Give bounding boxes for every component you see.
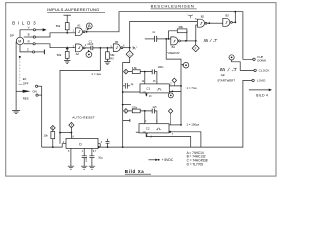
svg-text:1 = 7ms: 1 = 7ms <box>186 86 197 90</box>
svg-text:R: R <box>28 40 30 44</box>
svg-text:V: V <box>28 26 30 30</box>
mech link dashed <box>19 56 21 58</box>
svg-text:B1: B1 <box>115 40 119 44</box>
balloon dot mid <box>183 62 189 68</box>
pin CD U1 <box>143 91 147 93</box>
svg-text:C: C <box>27 48 29 52</box>
contact RES <box>36 94 38 96</box>
IC D TL7705 <box>66 138 98 148</box>
node 9 <box>208 22 210 24</box>
monostable U2 <box>139 124 169 133</box>
wire to B2 input <box>196 25 198 41</box>
resistor R5 68k <box>132 70 140 74</box>
svg-text:RES: RES <box>23 97 29 101</box>
title BESCHLEUNIGEN <box>151 4 195 9</box>
svg-text:DOWN: DOWN <box>257 59 266 63</box>
gate B1 <box>113 44 120 52</box>
wire R2 <box>66 48 68 61</box>
wire OFF <box>38 85 42 87</box>
wire pole to ground <box>15 91 17 110</box>
arrow V end <box>43 28 47 31</box>
svg-text:BESCHLEUNIGEN: BESCHLEUNIGEN <box>151 4 195 9</box>
right top pin U2 <box>169 124 181 126</box>
gate B1 osc <box>171 37 178 45</box>
node RC1 <box>144 71 146 73</box>
arrow BILD4 <box>249 89 269 91</box>
power diamond U2 <box>168 109 172 114</box>
wire feedback left <box>169 31 178 39</box>
resistor R1 56k <box>65 23 69 30</box>
svg-text:B2: B2 <box>201 14 205 18</box>
svg-text:1 = 1µs: 1 = 1µs <box>91 72 101 76</box>
left pin U2 <box>136 131 139 133</box>
diamond F <box>192 45 199 52</box>
wire A1 long to UP-DOWN <box>87 12 253 60</box>
waveform label under B2 <box>204 39 218 42</box>
capacitor C7 <box>82 156 87 166</box>
svg-text:1 = 100µs: 1 = 100µs <box>186 123 199 127</box>
label 1=7ms <box>186 86 197 90</box>
ground pins <box>68 166 74 169</box>
capacitor C3 100n <box>152 69 154 74</box>
svg-text:22nF: 22nF <box>87 42 93 46</box>
right pins U1 <box>169 86 181 92</box>
svg-text:B1: B1 <box>172 45 176 49</box>
label BILD3 <box>12 21 38 26</box>
monostable U1 <box>140 84 169 93</box>
pole wire down <box>15 42 17 92</box>
power diamond M2 <box>124 109 129 114</box>
ground R3 <box>104 62 110 65</box>
node 10 <box>234 21 236 23</box>
svg-text:10µ: 10µ <box>98 155 103 159</box>
svg-text:ON: ON <box>32 90 36 94</box>
balloon dot A2 <box>86 52 92 58</box>
svg-text:M: M <box>18 40 21 44</box>
switch S1 rotary DP <box>10 34 14 38</box>
svg-text:100n: 100n <box>158 65 164 69</box>
balloon pulse A1 <box>86 23 92 29</box>
contact B <box>33 36 35 38</box>
svg-text:1n5: 1n5 <box>152 106 157 109</box>
contact V <box>33 29 35 31</box>
wire C1 out up <box>232 12 235 23</box>
svg-text:BILD 4: BILD 4 <box>256 94 268 98</box>
svg-text:+ 5VDC: + 5VDC <box>162 158 174 162</box>
capacitor C1 22nF <box>91 46 93 50</box>
power diamond D2 <box>50 126 55 131</box>
capacitor C6 <box>106 139 110 147</box>
wire clock <box>232 60 254 70</box>
wire feedback right <box>186 31 188 41</box>
border frame <box>6 3 276 177</box>
wire RC2 <box>128 110 152 112</box>
wire B to node1 <box>35 33 75 37</box>
gate C1 top <box>223 18 230 26</box>
left pin U1 <box>123 91 140 93</box>
resistor R4 68k feedback <box>177 29 187 33</box>
contact R <box>33 43 35 45</box>
node 6 <box>168 38 170 40</box>
svg-text:F.UP: F.UP <box>257 55 263 59</box>
wire B1 out down to monostables <box>123 48 130 147</box>
svg-text:68k: 68k <box>179 25 184 29</box>
pin CD U2 <box>143 131 147 133</box>
title IMPULS-AUFBEREITUNG <box>47 7 99 12</box>
power diamond M1 <box>124 69 129 74</box>
label AUTO-RESET <box>72 116 95 120</box>
power diamond D1 <box>69 122 74 127</box>
wire RES <box>38 94 42 96</box>
svg-text:STARTWERT: STARTWERT <box>217 78 235 82</box>
wire R to node2 <box>35 44 75 48</box>
waveform label clock <box>220 68 237 71</box>
svg-text:1µF: 1µF <box>221 74 226 77</box>
wire A2 out <box>85 47 91 49</box>
test point circle <box>229 55 234 60</box>
wire cap right <box>157 38 171 40</box>
gate A1 <box>76 28 83 36</box>
svg-text:C: C <box>129 52 131 56</box>
svg-text:10k: 10k <box>44 133 49 137</box>
contact OFF <box>36 85 38 87</box>
contact C <box>33 51 35 53</box>
wire B row <box>24 36 34 38</box>
legend ICs <box>187 151 208 167</box>
svg-text:AUTO-RESET: AUTO-RESET <box>72 116 95 120</box>
svg-text:Bild Xa: Bild Xa <box>125 169 144 174</box>
terminal CLOCK <box>254 69 256 71</box>
wire R row <box>24 43 33 45</box>
wire C1 out <box>93 47 113 49</box>
power diamond U1 <box>172 78 176 83</box>
capacitor C8 10u <box>89 156 94 166</box>
wire R1 top <box>66 15 68 22</box>
node 7 <box>185 40 187 42</box>
resistor R3 56k <box>106 48 108 52</box>
label 1=100us <box>186 123 199 127</box>
wire C row <box>20 45 33 52</box>
svg-text:DP: DP <box>10 34 14 38</box>
svg-text:B: B <box>28 33 30 37</box>
ground pole <box>12 110 20 113</box>
capacitor C5 1n5 <box>152 109 154 114</box>
right bottom pin U2 <box>169 131 170 132</box>
svg-text:A1: A1 <box>77 23 81 27</box>
right pin IC D <box>98 144 100 147</box>
label 1=1us <box>91 72 101 76</box>
diamond C <box>126 51 133 58</box>
reset wire to LOAD <box>100 80 252 147</box>
svg-text:A2: A2 <box>76 52 80 56</box>
svg-text:IMPULS-AUFBEREITUNG: IMPULS-AUFBEREITUNG <box>47 7 99 12</box>
switch S2 labels <box>23 77 37 101</box>
wire C stub <box>35 51 44 53</box>
wire B1 out <box>123 47 130 49</box>
svg-text:B3: B3 <box>226 14 230 18</box>
svg-text:56k: 56k <box>57 53 62 57</box>
label STARTWERT <box>217 74 235 82</box>
wire to IC D pin2 <box>42 144 66 147</box>
wire branch node <box>122 104 124 106</box>
wire D1 <box>70 128 72 139</box>
caption Bild Xa <box>125 169 144 174</box>
wire U1 to U2 <box>166 39 181 125</box>
+5V tick <box>64 14 72 16</box>
svg-text:D = TL7705: D = TL7705 <box>187 163 204 167</box>
label T quoted <box>188 15 193 19</box>
wire cap left <box>145 38 155 40</box>
node 4 <box>107 47 109 49</box>
svg-text:F: F <box>195 46 197 50</box>
wire branch tick <box>123 119 130 122</box>
wire B1 to B2 <box>130 21 198 47</box>
svg-text:120k: 120k <box>132 106 138 109</box>
svg-text:56k: 56k <box>110 53 115 57</box>
wire R1 bottom <box>66 30 68 33</box>
label timing <box>167 52 180 55</box>
node 1 <box>66 32 68 34</box>
wire RC1 <box>128 71 152 73</box>
svg-text:C1: C1 <box>146 87 150 91</box>
resistor R7 10k <box>52 130 54 131</box>
switch S2 pole arm <box>16 90 23 92</box>
svg-text:6,8k: 6,8k <box>132 67 137 70</box>
balloon dot U1 <box>168 93 173 98</box>
wire D1 left <box>60 132 71 134</box>
node A1 out <box>86 31 88 33</box>
wire V stub <box>36 29 43 31</box>
node 8 <box>195 40 197 42</box>
svg-text:56k: 56k <box>56 24 61 28</box>
wires C5 pins <box>145 111 157 124</box>
gate B2 <box>197 19 204 27</box>
svg-text:BILD3: BILD3 <box>12 21 38 26</box>
wire sense down <box>60 48 100 144</box>
svg-text:*2SE20.8V: *2SE20.8V <box>167 52 180 55</box>
ground R2 <box>64 60 70 63</box>
resistor R2 56k <box>65 52 69 59</box>
svg-text:LOAD: LOAD <box>257 79 266 83</box>
wire B2 out <box>207 22 223 24</box>
svg-text:100n: 100n <box>86 156 88 162</box>
wire V row <box>20 30 33 38</box>
label pulse quoted <box>132 47 137 49</box>
bar C end <box>43 50 45 55</box>
terminal LOAD <box>252 79 254 81</box>
terminal UP-DOWN <box>253 58 255 60</box>
gate A2 <box>76 44 83 52</box>
wire osc out <box>180 40 195 42</box>
wire C3 to pin <box>145 72 157 84</box>
node 2 arrow <box>66 46 69 49</box>
bottom pins IC D <box>70 148 72 166</box>
svg-text:OFF: OFF <box>23 81 29 85</box>
capacitor C2 1n <box>154 36 156 42</box>
svg-text:R3: R3 <box>110 56 114 60</box>
capacitor C4 1u <box>123 83 131 89</box>
label +5VDC <box>149 159 156 161</box>
resistor R6 120k <box>132 109 140 113</box>
node 5 <box>129 47 131 49</box>
node RC2 <box>144 110 146 112</box>
bus wire down <box>41 86 43 147</box>
svg-text:CLOCK: CLOCK <box>259 69 270 73</box>
svg-text:C2: C2 <box>146 126 150 130</box>
node 3 <box>99 47 101 49</box>
